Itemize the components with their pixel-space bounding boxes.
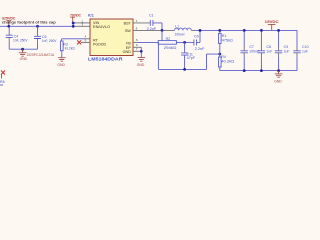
wire SW to R2 xyxy=(161,30,163,40)
cut component at left edge xyxy=(1,75,3,79)
svg-text:1nF, 250V: 1nF, 250V xyxy=(42,39,57,43)
capacitor C4 xyxy=(6,26,28,49)
EP stub xyxy=(133,46,141,48)
capacitor C9 xyxy=(275,30,290,70)
inductor L1 xyxy=(175,25,192,37)
junction gnd stem xyxy=(21,48,24,51)
junction C11 bottom xyxy=(183,68,186,71)
wire R2 to C6 xyxy=(176,41,194,43)
capacitor C1 xyxy=(147,14,162,31)
svg-text:2.2nF: 2.2nF xyxy=(147,27,157,31)
svg-text:70VDC: 70VDC xyxy=(70,12,81,17)
junction R2/C6/C11 xyxy=(183,41,186,44)
svg-text:325VDC: 325VDC xyxy=(2,15,16,20)
junction C5 xyxy=(36,25,39,28)
wire output gnd bar xyxy=(220,70,297,72)
svg-text:40.2kΩ: 40.2kΩ xyxy=(221,60,235,64)
junction EN xyxy=(72,25,75,28)
ground output xyxy=(274,71,282,84)
svg-text:1uF: 1uF xyxy=(302,49,308,53)
capacitor C6 xyxy=(194,34,205,51)
power port 70VDC xyxy=(70,12,81,23)
GND stub xyxy=(133,50,141,52)
svg-text:SW: SW xyxy=(125,29,131,33)
capacitor C11 xyxy=(181,52,195,70)
svg-text:GND: GND xyxy=(123,50,132,54)
FB wire xyxy=(139,41,159,43)
junction VIN xyxy=(72,22,75,25)
svg-text:BST: BST xyxy=(124,21,132,25)
svg-text:GND: GND xyxy=(57,63,65,67)
EP GND tie xyxy=(140,47,142,57)
capacitor C10 xyxy=(293,30,308,70)
svg-text:L1: L1 xyxy=(175,25,179,29)
svg-text:475kΩ: 475kΩ xyxy=(222,39,234,43)
svg-text:R6: R6 xyxy=(0,80,5,84)
junction SW/C1 xyxy=(161,29,164,32)
svg-text:47pF: 47pF xyxy=(187,56,196,60)
power port 325VDC xyxy=(2,15,16,26)
power port 15VDC xyxy=(265,19,279,30)
capacitor C5 xyxy=(34,26,57,49)
wire VIN to pin xyxy=(73,22,75,24)
pin numbers xyxy=(82,19,138,51)
wire FB feedback loop xyxy=(158,42,219,69)
SW stub xyxy=(133,29,175,31)
wire C6 up to VOUT xyxy=(199,30,201,42)
svg-text:1uF: 1uF xyxy=(266,49,272,53)
wire gnd bar C4 C5 xyxy=(9,48,37,50)
resistor R1 xyxy=(219,30,234,54)
svg-text:GND: GND xyxy=(274,80,282,84)
svg-text:2225PC121MAT1A: 2225PC121MAT1A xyxy=(27,53,55,57)
svg-text:R4: R4 xyxy=(221,55,226,59)
wire EN/UVLO xyxy=(73,23,75,26)
capacitor C7 xyxy=(241,30,260,70)
junction R1/R4 xyxy=(218,53,221,56)
svg-text:100uH: 100uH xyxy=(175,33,186,37)
no-connect X on PGOOD xyxy=(77,40,81,44)
svg-text:GND: GND xyxy=(137,63,145,67)
ground under EP/GND xyxy=(137,58,145,68)
ground under C4/C5 xyxy=(19,49,28,61)
svg-text:1nF, 250V: 1nF, 250V xyxy=(13,38,28,42)
FB stub xyxy=(133,41,139,43)
pgood stub xyxy=(81,41,90,43)
svg-text:41.2kΩ: 41.2kΩ xyxy=(65,46,75,50)
BST stub xyxy=(133,22,150,24)
svg-text:R2: R2 xyxy=(166,37,171,41)
svg-text:C6: C6 xyxy=(194,34,199,38)
wire R3 to gnd xyxy=(61,51,63,58)
svg-text:1uF: 1uF xyxy=(284,49,290,53)
svg-text:change footprint of this cap: change footprint of this cap xyxy=(2,21,56,25)
IC IC1 LM5164 body xyxy=(88,14,133,56)
resistor R2 xyxy=(158,37,177,50)
resistor R4 xyxy=(219,54,235,71)
wire junction down to C11 xyxy=(184,42,186,51)
capacitor C8 xyxy=(258,30,273,70)
svg-text:FB: FB xyxy=(126,41,131,45)
svg-text:LM5164DDAR: LM5164DDAR xyxy=(88,57,123,62)
wire VOUT xyxy=(191,29,196,31)
svg-text:294kΩ: 294kΩ xyxy=(164,46,177,50)
svg-text:IC1: IC1 xyxy=(88,14,94,18)
ground under R3 xyxy=(57,58,65,67)
junction left power xyxy=(7,25,10,28)
wire input net 325VDC xyxy=(0,25,73,27)
resistor R3 xyxy=(61,41,76,51)
svg-text:C1: C1 xyxy=(149,14,154,18)
svg-text:EN/UVLO: EN/UVLO xyxy=(93,25,110,29)
svg-text:15VDC: 15VDC xyxy=(265,19,279,24)
svg-text:PGOOD: PGOOD xyxy=(93,43,106,47)
svg-text:GND: GND xyxy=(20,57,28,61)
svg-text:R1: R1 xyxy=(222,34,227,38)
svg-text:2.2nF: 2.2nF xyxy=(195,47,205,51)
no-connect X bottom left xyxy=(1,71,5,75)
wire RT xyxy=(85,38,91,40)
